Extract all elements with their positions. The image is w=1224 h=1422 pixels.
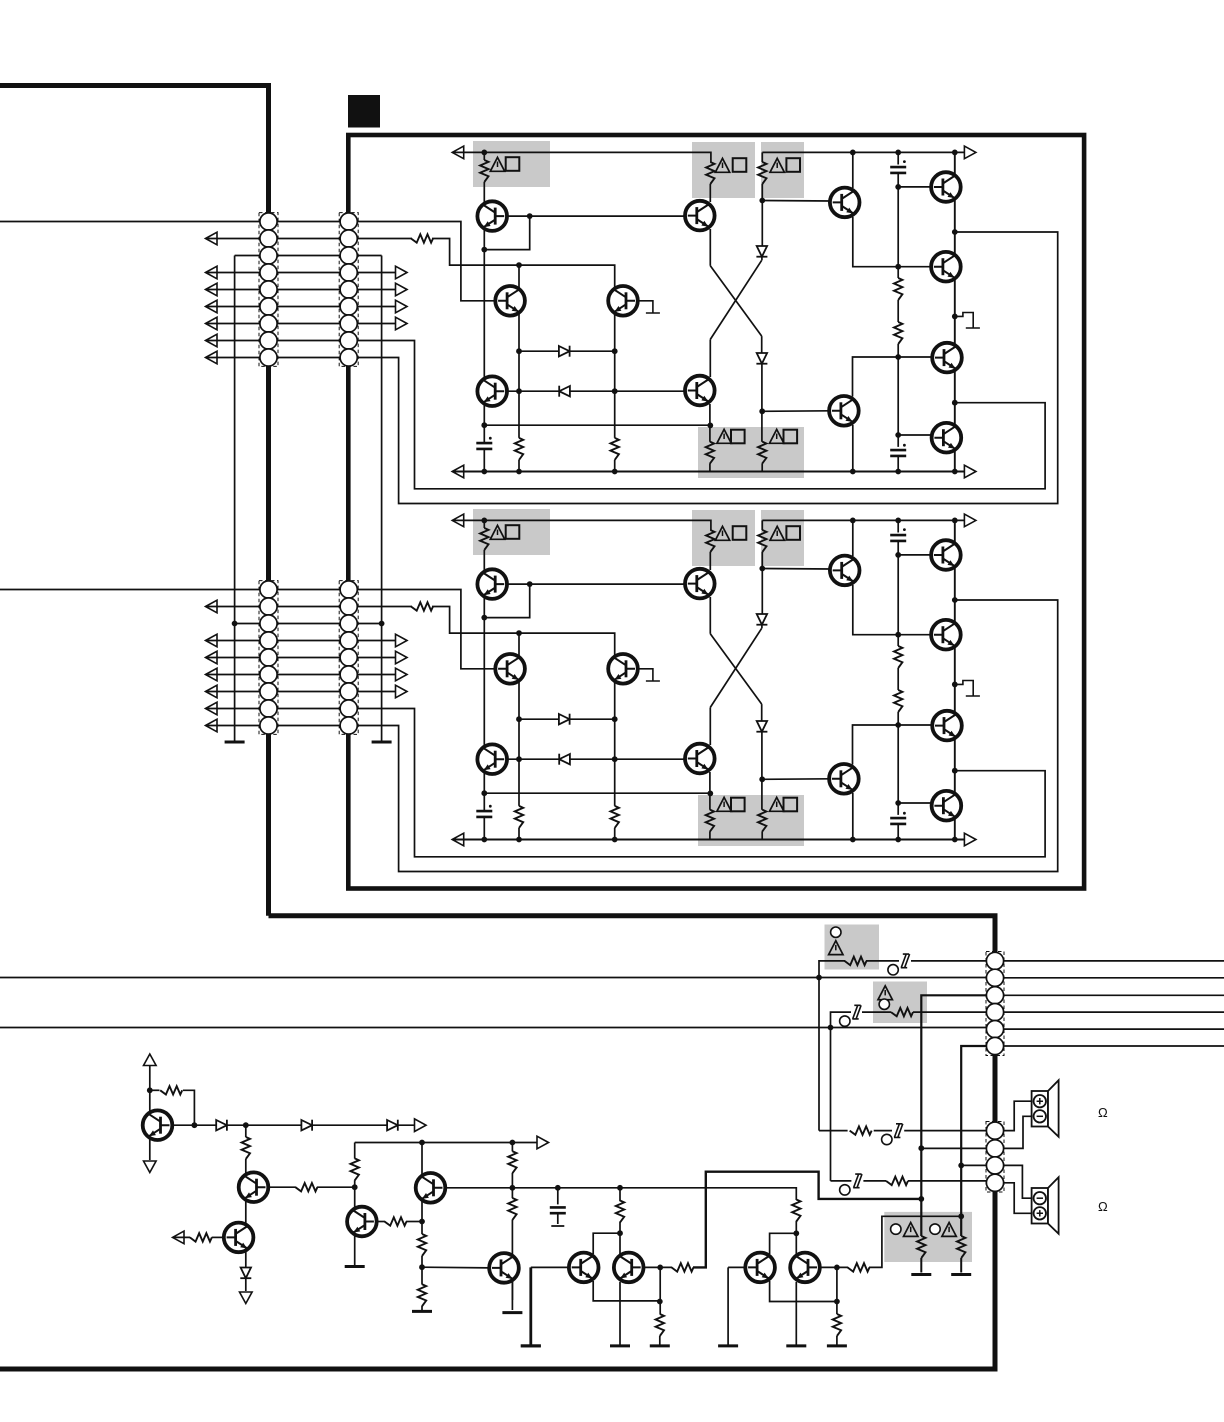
- wire Q805 out bus: [445, 1188, 796, 1200]
- resistor R705: [706, 162, 714, 184]
- wire column B: [518, 265, 520, 438]
- wire cell2 branch: [770, 1233, 797, 1254]
- speaker SP2: [1032, 1177, 1059, 1234]
- wire to CN802-3: [961, 1164, 986, 1166]
- node leg B2: [918, 1196, 924, 1202]
- connector CN101 right column: [339, 213, 358, 367]
- resistor R825: [848, 1263, 870, 1271]
- node e6: [895, 432, 901, 438]
- wire to diode D703: [761, 201, 763, 246]
- node A2: [481, 247, 487, 253]
- wire row6: [206, 306, 400, 308]
- arrow left row2: [206, 232, 218, 245]
- wire bus line 1: [0, 977, 987, 979]
- connector CN801: [986, 952, 1004, 1056]
- wire Q804 emitter: [354, 1235, 356, 1267]
- channel 2 (identical amplifier): [0, 509, 1058, 872]
- wire Q707 base: [762, 200, 831, 203]
- wire in: [173, 1236, 191, 1238]
- node o3: [952, 400, 958, 406]
- node B2: [516, 348, 522, 354]
- transistor Q801: [143, 1110, 173, 1140]
- terminal SP1 minus: [1034, 1110, 1046, 1122]
- node s3: [243, 1122, 249, 1128]
- resistor R102: [411, 234, 433, 242]
- resistor R817: [418, 1234, 426, 1256]
- fuse FB801: [901, 954, 910, 968]
- node Q707 base node: [759, 198, 765, 204]
- wire down leg A: [818, 978, 820, 1131]
- resistor R801: [845, 957, 867, 965]
- transistor Q804: [347, 1207, 377, 1237]
- wire mid column: [354, 1143, 356, 1159]
- wire diode row2: [507, 390, 686, 392]
- resistor R707: [709, 404, 711, 442]
- wire Q802-Q803: [245, 1200, 247, 1224]
- warning mark R705: [715, 158, 729, 172]
- node t7: [617, 1185, 623, 1191]
- connector CN101 left column: [259, 213, 278, 367]
- wire fuse to R802: [862, 1011, 891, 1013]
- wire QR1 base: [643, 1266, 672, 1268]
- fuse FB804: [853, 1174, 862, 1188]
- wire Q704 emitter stub: [638, 301, 660, 313]
- terminal SP2 plus: [1034, 1207, 1046, 1219]
- node B4: [516, 469, 522, 475]
- ground bar left: [225, 741, 245, 743]
- highlight box fusible resistor R701: [473, 141, 550, 187]
- wire Q801 emitter: [149, 1139, 151, 1160]
- node e3: [895, 354, 901, 360]
- wire col 422: [421, 1143, 423, 1235]
- resistor R703: [611, 438, 619, 460]
- wire QL2 emitter: [770, 1281, 837, 1302]
- arrow left row4: [206, 266, 218, 279]
- resistor R819: [508, 1151, 516, 1173]
- wire QL2 gnd stem: [727, 1267, 729, 1346]
- resistor R701: [483, 152, 485, 160]
- diode D701: [559, 346, 570, 357]
- arrow left V+ rail: [452, 146, 464, 159]
- diode D803: [387, 1120, 398, 1131]
- wire row9 speaker return B: [206, 232, 1058, 504]
- wire to CN802-2: [921, 1147, 986, 1149]
- transistor Q705: [685, 201, 715, 231]
- diode D801: [216, 1120, 227, 1131]
- node leg D2: [958, 1213, 964, 1219]
- arrow left V- rail: [452, 465, 464, 478]
- node t1: [419, 1140, 425, 1146]
- wire row3 ground stubs: [235, 255, 382, 257]
- test point TP804: [840, 1185, 850, 1195]
- warning mark R801: [829, 941, 843, 955]
- wire bias line y425: [484, 403, 710, 443]
- arrow down: [144, 1161, 157, 1173]
- wire to Q802: [245, 1159, 247, 1174]
- wire QL1 emitter: [593, 1281, 659, 1301]
- wire Q705 emitter: [709, 229, 711, 266]
- resistor R804: [957, 1236, 965, 1258]
- wire col 512b: [511, 1173, 513, 1198]
- resistor R820: [508, 1198, 516, 1220]
- arrow right V- rail: [964, 465, 976, 478]
- arrow right row7: [396, 317, 408, 330]
- wire column A: [483, 228, 485, 380]
- wire r826 gnd: [836, 1336, 838, 1346]
- wire Q706 collector: [709, 339, 711, 377]
- resistor R822: [672, 1263, 694, 1271]
- svg-text:Ω: Ω: [1098, 1105, 1108, 1120]
- ground bar Q806: [502, 1312, 522, 1314]
- transistor Q708: [829, 396, 859, 426]
- transistor Q803: [224, 1223, 254, 1253]
- resistor R710: [894, 322, 902, 344]
- wire QR2 emitter: [795, 1282, 797, 1346]
- node rail d2: [895, 150, 901, 156]
- wire Q806 emitter: [511, 1282, 513, 1310]
- node e2: [895, 184, 901, 190]
- wire d1-d2: [227, 1124, 301, 1126]
- resistor R813: [190, 1233, 212, 1241]
- capacitor C703: [897, 152, 899, 164]
- wire V+ rail left segment: [452, 152, 711, 162]
- wire CN802-1 to speaker1 plus: [1004, 1101, 1032, 1130]
- node loop: [527, 213, 533, 219]
- wire R806 to pin4: [908, 1180, 987, 1182]
- node o0: [952, 150, 958, 156]
- wire to CN801-3: [921, 995, 986, 1236]
- capacitor C704: [890, 450, 906, 456]
- speaker SP1: [1032, 1080, 1059, 1137]
- diode D703: [756, 246, 767, 257]
- transistor Q809: [745, 1253, 775, 1283]
- node v1: [793, 1230, 799, 1236]
- arrow left row5: [206, 283, 218, 296]
- wire col 422c: [421, 1306, 423, 1311]
- wire resistor chain: [897, 187, 899, 278]
- ground bar Q804: [345, 1266, 365, 1268]
- arrow right row6: [396, 300, 408, 313]
- warning mark R707: [717, 429, 731, 443]
- wire row7: [206, 323, 400, 325]
- wire row2: [206, 238, 413, 240]
- node t5: [510, 1185, 516, 1191]
- wire to CN802-1: [819, 1130, 848, 1132]
- wire Q701 to Q705 base: [530, 215, 686, 217]
- wire to Q712 base: [898, 434, 932, 436]
- arrow right row5: [396, 283, 408, 296]
- wire cell1 res: [619, 1188, 621, 1201]
- test point TP801: [888, 965, 898, 975]
- diode D802: [301, 1120, 312, 1131]
- transistor Q707: [830, 188, 860, 218]
- node v3: [834, 1299, 840, 1305]
- resistor R814: [295, 1183, 317, 1191]
- node mid1: [707, 423, 713, 429]
- transistor Q808: [614, 1253, 644, 1283]
- node s1: [147, 1087, 153, 1093]
- transistor Q706: [685, 376, 715, 406]
- wire QR2 base: [820, 1266, 849, 1268]
- node u2: [657, 1265, 663, 1271]
- wire row5: [206, 289, 400, 291]
- wire harness to rear panel: [1004, 960, 1224, 962]
- wire column C: [614, 290, 616, 438]
- resistor R806: [886, 1177, 908, 1185]
- node leg D1: [958, 1163, 964, 1169]
- node B3: [516, 388, 522, 394]
- test point TP802: [840, 1016, 850, 1026]
- wire d3-arrow: [398, 1124, 418, 1126]
- wire r823 gnd: [659, 1336, 661, 1346]
- node rail d1: [850, 150, 856, 156]
- wire bus line 2: [0, 1027, 987, 1029]
- resistor R826: [833, 1314, 841, 1336]
- diode D702: [559, 386, 570, 397]
- circle mark R802: [879, 999, 889, 1009]
- wire diode row1: [519, 350, 615, 352]
- wire V+ rail right segment: [762, 152, 967, 162]
- resistor R805: [850, 1126, 872, 1134]
- transistor Q712: [932, 423, 962, 453]
- node u3: [657, 1299, 663, 1305]
- wire R801 to fuse: [866, 960, 899, 962]
- arrow left row9: [206, 351, 218, 364]
- ground bar R804: [951, 1274, 971, 1276]
- wire thick ground stem: [529, 1267, 532, 1346]
- wire R805 to fuse: [874, 1130, 892, 1132]
- wire to CN801-4: [831, 1012, 852, 1027]
- wire supply: [149, 1066, 151, 1113]
- node o1: [952, 229, 958, 235]
- wire cell2 out: [869, 1216, 961, 1267]
- resistor R821: [616, 1200, 624, 1222]
- node A3: [481, 422, 487, 428]
- capacitor C701: [476, 443, 492, 449]
- transistor Q709: [931, 172, 961, 202]
- wire C703 to Q709 base: [898, 186, 932, 188]
- node C2: [612, 388, 618, 394]
- warning mark R701: [490, 157, 504, 171]
- wire D704 down: [761, 365, 763, 442]
- resistor R702: [515, 438, 523, 460]
- open stub symbol: [955, 313, 980, 329]
- transistor Q702: [495, 286, 525, 316]
- wire to pin1: [904, 1130, 986, 1132]
- wire QR1 emitter: [619, 1282, 621, 1346]
- node o2: [952, 314, 958, 320]
- circle mark R803: [891, 1224, 901, 1234]
- IC pin1 mark: [348, 95, 380, 128]
- node t6: [555, 1185, 561, 1191]
- node u1: [617, 1230, 623, 1236]
- wire cross to D704: [761, 336, 763, 352]
- node s4: [352, 1184, 358, 1190]
- wire Q802 out: [268, 1186, 296, 1188]
- arrow up supply: [144, 1054, 157, 1066]
- wire down leg C: [830, 1028, 832, 1181]
- circle mark R801: [831, 927, 841, 937]
- node e1: [895, 264, 901, 270]
- wire d2-d3: [312, 1124, 387, 1126]
- arrow left row6: [206, 300, 218, 313]
- wire D703 to cross: [761, 258, 763, 261]
- fuse FB803: [894, 1124, 903, 1138]
- resistor R818: [418, 1284, 426, 1306]
- wire CN802-3 to speaker2 minus: [1004, 1165, 1032, 1198]
- ground bar R823: [650, 1345, 670, 1347]
- circle mark R804: [930, 1224, 940, 1234]
- test point TP803: [882, 1134, 892, 1144]
- ground bar right: [372, 741, 392, 743]
- node v2: [834, 1265, 840, 1271]
- warning mark R802: [878, 986, 892, 1000]
- wire cross diagonal 1: [710, 266, 761, 336]
- ground bar QR2: [786, 1345, 806, 1347]
- wire cell1 node: [619, 1222, 621, 1254]
- speaker relay PCB frame: [0, 916, 995, 1369]
- wire col 512: [511, 1143, 513, 1152]
- transistor Q703: [477, 376, 507, 406]
- wire Q802 collector: [245, 1125, 247, 1137]
- amplifier IC block frame: [348, 135, 1084, 889]
- wire V- rail: [452, 471, 967, 473]
- arrow right out: [415, 1119, 427, 1132]
- wire bias loop: [150, 1089, 160, 1091]
- svg-text:Ω: Ω: [1098, 1199, 1108, 1214]
- node A1: [481, 150, 487, 156]
- ground bus left: [234, 256, 236, 743]
- wire cell1 branch: [593, 1233, 620, 1254]
- ground bar R818: [412, 1310, 432, 1312]
- wire col 512c: [511, 1220, 513, 1300]
- node A4: [481, 469, 487, 475]
- wire cross diagonal 2: [710, 260, 761, 339]
- warning mark R804: [942, 1223, 956, 1237]
- ground bar R803: [911, 1274, 931, 1276]
- wire to CN801-1: [819, 961, 845, 978]
- node t2: [510, 1140, 516, 1146]
- warning mark R803: [904, 1223, 918, 1237]
- node e4: [850, 469, 856, 475]
- arrow left in: [173, 1231, 185, 1244]
- fuse FB802: [852, 1005, 861, 1019]
- arrow left row7: [206, 317, 218, 330]
- arrow right row4: [396, 266, 408, 279]
- wire Q708 collector to Q711 base: [853, 357, 941, 397]
- transistor Q810: [790, 1253, 820, 1283]
- arrow right V+ rail: [964, 146, 976, 159]
- node o4: [952, 469, 958, 475]
- node e5: [895, 469, 901, 475]
- resistor R802: [891, 1008, 913, 1016]
- transistor Q807: [569, 1253, 599, 1283]
- resistor R824: [792, 1200, 800, 1222]
- arrow down out: [240, 1292, 253, 1304]
- diode D804: [240, 1268, 251, 1279]
- node t3: [419, 1219, 425, 1225]
- wire to CN802-4: [831, 1180, 852, 1182]
- wire to QE base: [422, 1266, 490, 1269]
- wire u2 down: [659, 1267, 661, 1314]
- node t4: [419, 1264, 425, 1270]
- wire row1 to IC input: [0, 222, 497, 301]
- wire cell1 out: [693, 1172, 921, 1268]
- node bus1: [816, 975, 822, 981]
- transistor Q710: [931, 252, 961, 282]
- transistor Q704: [608, 286, 638, 316]
- ground bar cell1: [521, 1345, 541, 1347]
- wire Q708 emitter: [852, 425, 854, 472]
- resistor R708: [758, 442, 766, 464]
- node C1: [612, 348, 618, 354]
- wire R813-Q803: [212, 1236, 225, 1238]
- wire Q804 base: [376, 1221, 385, 1223]
- wire Q708 base: [762, 410, 830, 413]
- wire fuse to R806: [863, 1180, 886, 1182]
- transistor Q802: [239, 1172, 269, 1202]
- ground bar QR1: [610, 1345, 630, 1347]
- highlight box fusible resistors R705 R706: [692, 142, 755, 198]
- warning mark R706: [770, 158, 784, 172]
- connector CN802: [986, 1122, 1004, 1193]
- wire output line: [172, 1124, 216, 1126]
- wire R814 to node: [317, 1186, 355, 1188]
- wire chain mid: [897, 300, 899, 322]
- transistor Q711: [932, 343, 962, 373]
- ground bus right: [381, 256, 383, 743]
- wire loop corner: [183, 1090, 195, 1125]
- resistor R823: [656, 1314, 664, 1336]
- wire v2 down: [836, 1267, 838, 1314]
- resistor R812: [242, 1137, 250, 1159]
- highlight box muting resistors R803 R804: [884, 1212, 972, 1262]
- wire mid column2: [354, 1180, 356, 1209]
- ground node left: [232, 621, 238, 627]
- transistor Q805: [416, 1173, 446, 1203]
- wire chain low: [897, 344, 899, 447]
- wire to connector pin1: [911, 960, 987, 962]
- wire output column: [954, 152, 956, 471]
- resistor R816: [385, 1217, 407, 1225]
- wire QL2 base: [728, 1266, 746, 1268]
- wire D804 down: [245, 1279, 247, 1291]
- warning mark R708: [770, 429, 784, 443]
- node Q708 base node: [759, 408, 765, 414]
- highlight box fusible resistor R801: [825, 925, 880, 970]
- resistor R803: [917, 1236, 925, 1258]
- wire to CN801-6: [961, 1046, 986, 1236]
- resistor R706: [758, 162, 766, 184]
- transistor Q806: [489, 1253, 519, 1283]
- wire Q707 emitter to Q710 base: [853, 152, 932, 266]
- arrow right top: [537, 1136, 549, 1149]
- node B1: [516, 262, 522, 268]
- wire CN802-2 to speaker1 minus: [1004, 1116, 1032, 1148]
- wire row2 to bias node: [432, 239, 615, 291]
- wire row8 speaker return A: [206, 341, 1046, 489]
- resistor R709: [894, 278, 902, 300]
- wire R802 to pin4: [913, 1011, 987, 1013]
- highlight box fusible resistor R802: [873, 982, 927, 1024]
- resistor R811: [160, 1086, 182, 1094]
- transistor Q701: [477, 201, 507, 231]
- wire QL1 base: [531, 1266, 570, 1268]
- wire CN802-4 to speaker2 plus: [1004, 1183, 1032, 1214]
- diode D704: [756, 353, 767, 364]
- ground bar QL2: [718, 1345, 738, 1347]
- wire R816 to col: [406, 1221, 422, 1223]
